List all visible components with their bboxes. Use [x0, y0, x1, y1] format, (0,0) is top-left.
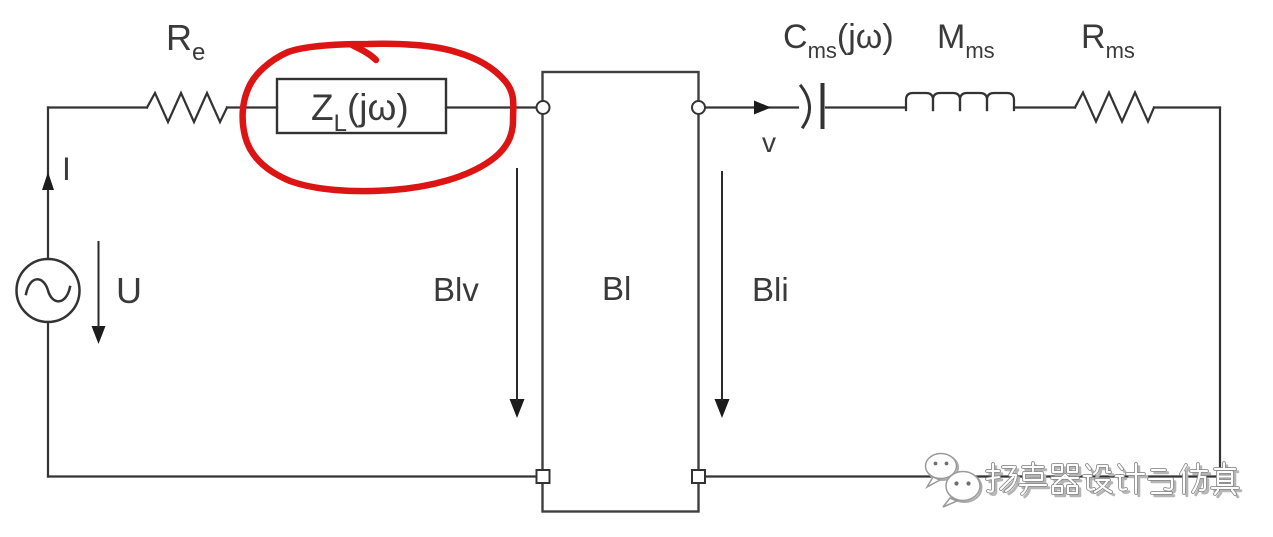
svg-text:v: v — [762, 127, 776, 158]
svg-text:Bl: Bl — [602, 270, 631, 307]
svg-text:Bli: Bli — [752, 271, 789, 308]
svg-text:Blv: Blv — [433, 271, 479, 308]
svg-text:I: I — [62, 151, 71, 187]
svg-text:U: U — [116, 270, 142, 311]
